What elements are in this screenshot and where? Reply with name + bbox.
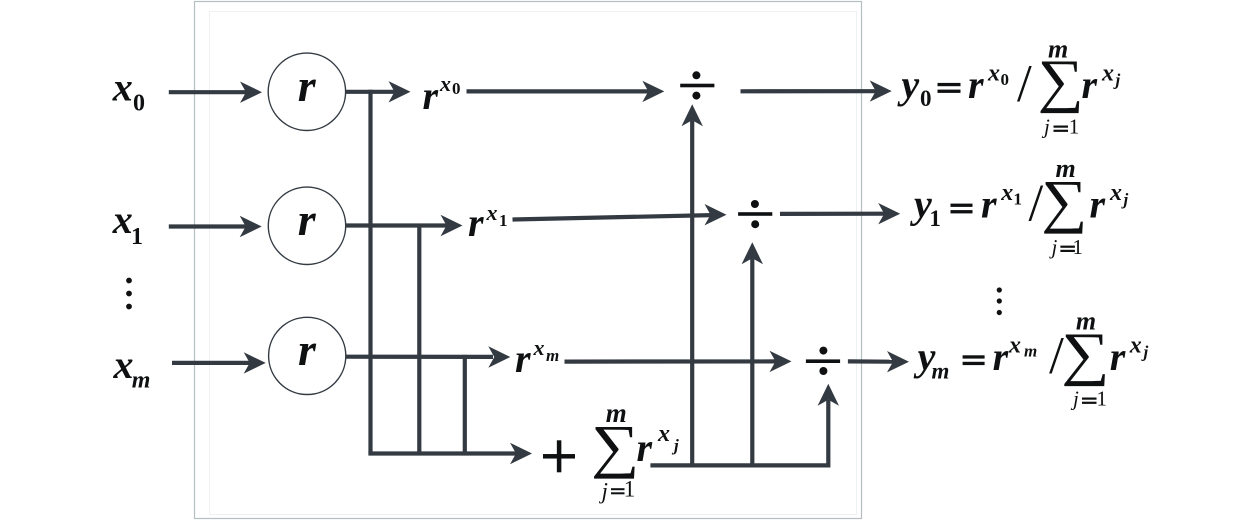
formula y1	[910, 154, 1129, 259]
wire sum output	[650, 400, 828, 465]
divide node rowm	[806, 347, 840, 375]
svg-text:1: 1	[1097, 387, 1108, 411]
svg-text:x: x	[112, 64, 133, 109]
svg-text:j: j	[1041, 115, 1050, 139]
svg-text:r: r	[968, 62, 984, 107]
wire branch v3	[463, 355, 467, 454]
arrowhead sum collect	[510, 443, 532, 464]
svg-text:1: 1	[499, 211, 508, 230]
svg-text:m: m	[546, 346, 559, 365]
exp node circle row1	[268, 187, 345, 264]
arrowhead rx1 into div1	[705, 204, 727, 225]
wire divm out	[848, 359, 894, 364]
wire r0 to label	[346, 90, 396, 94]
svg-text:0: 0	[452, 79, 461, 98]
dots right vertical ellipsis	[997, 287, 1002, 315]
divide node row1	[738, 200, 772, 228]
svg-text:1: 1	[1014, 190, 1023, 209]
svg-text:x: x	[657, 421, 670, 447]
wire xm input	[172, 361, 250, 365]
svg-text:r: r	[298, 194, 317, 245]
svg-text:r: r	[298, 324, 317, 375]
svg-text:r: r	[981, 182, 997, 227]
svg-text:j: j	[671, 436, 679, 455]
wire x1 input	[169, 224, 246, 228]
svg-text:m: m	[1076, 307, 1096, 336]
exp node circle rowm	[269, 317, 346, 394]
wire div0 out	[741, 89, 877, 93]
exp node circle row0	[268, 53, 345, 130]
arrowhead up divm	[818, 384, 839, 406]
svg-text:m: m	[132, 367, 151, 393]
arrowhead div0 to y0	[870, 80, 892, 101]
svg-text:1: 1	[131, 224, 143, 250]
arrowhead x0 into r	[240, 82, 262, 103]
svg-text:r: r	[1090, 182, 1106, 227]
svg-text:1: 1	[624, 477, 636, 502]
wire rxm to divm	[565, 359, 777, 363]
arrowhead rm out	[488, 346, 510, 367]
wire x0 input	[169, 90, 246, 94]
wire branch v2	[417, 224, 421, 454]
svg-text:0: 0	[1001, 70, 1010, 89]
svg-text:x: x	[987, 60, 1000, 86]
svg-text:x: x	[1101, 60, 1114, 86]
arrowhead divm to ym	[887, 351, 909, 372]
svg-text:1: 1	[929, 206, 941, 231]
svg-text:m: m	[606, 398, 627, 428]
svg-text:y: y	[897, 62, 919, 107]
formula ym	[914, 307, 1149, 411]
svg-text:x: x	[1129, 332, 1142, 358]
wire up shaft div1	[750, 258, 754, 465]
svg-text:x: x	[1000, 180, 1013, 206]
svg-text:x: x	[113, 342, 134, 387]
arrowhead xm into r	[244, 352, 266, 373]
arrowhead x1 into r	[240, 216, 262, 237]
svg-text:x: x	[533, 335, 545, 360]
svg-text:j: j	[1049, 235, 1058, 259]
arrowhead up div0	[682, 104, 703, 126]
svg-text:0: 0	[133, 91, 145, 117]
svg-text:r: r	[298, 60, 317, 111]
svg-text:r: r	[468, 200, 484, 245]
svg-text:x: x	[486, 200, 498, 225]
svg-text:r: r	[1082, 62, 1098, 107]
svg-text:r: r	[637, 425, 653, 470]
dots left vertical ellipsis	[126, 278, 132, 310]
arrowhead up div1	[742, 242, 763, 264]
svg-text:r: r	[993, 334, 1009, 379]
svg-text:1: 1	[1069, 115, 1080, 139]
svg-text:0: 0	[920, 86, 932, 111]
wire div1 out	[780, 212, 885, 216]
svg-text:m: m	[1056, 154, 1076, 183]
arrowhead r1 out	[441, 215, 463, 236]
arrowhead rxm into divm	[770, 351, 792, 372]
arrowhead div1 to y1	[878, 203, 900, 224]
svg-text:/: /	[1017, 55, 1032, 113]
arrowhead rx0 into div0	[642, 81, 664, 102]
divide node row0	[680, 71, 714, 99]
svg-text:j: j	[1070, 387, 1079, 411]
svg-text:j: j	[599, 478, 608, 503]
svg-text:m: m	[1024, 342, 1037, 361]
sum label sigma	[591, 413, 639, 479]
sum label plus	[543, 440, 575, 472]
wire rx0 to div0	[467, 89, 650, 93]
svg-text:x: x	[1109, 180, 1122, 206]
svg-text:x: x	[1008, 332, 1021, 358]
wire r1 to label	[346, 223, 447, 227]
wire rm to label	[346, 355, 493, 359]
inner faint box	[210, 12, 857, 515]
svg-text:x: x	[439, 71, 451, 96]
wire sum collect	[368, 451, 517, 455]
svg-text:m: m	[932, 358, 950, 383]
wire up shaft div0	[690, 120, 694, 465]
wire rx1 to div1	[513, 215, 712, 219]
svg-text:x: x	[112, 197, 133, 242]
svg-text:m: m	[1048, 35, 1068, 64]
svg-text:r: r	[1110, 334, 1126, 379]
svg-text:r: r	[515, 336, 531, 381]
wire branch v1	[368, 90, 372, 454]
arrowhead r0 out	[389, 81, 411, 102]
formula y0	[897, 35, 1120, 139]
svg-text:1: 1	[1073, 235, 1084, 259]
svg-text:r: r	[423, 73, 439, 118]
outer box	[195, 2, 862, 519]
